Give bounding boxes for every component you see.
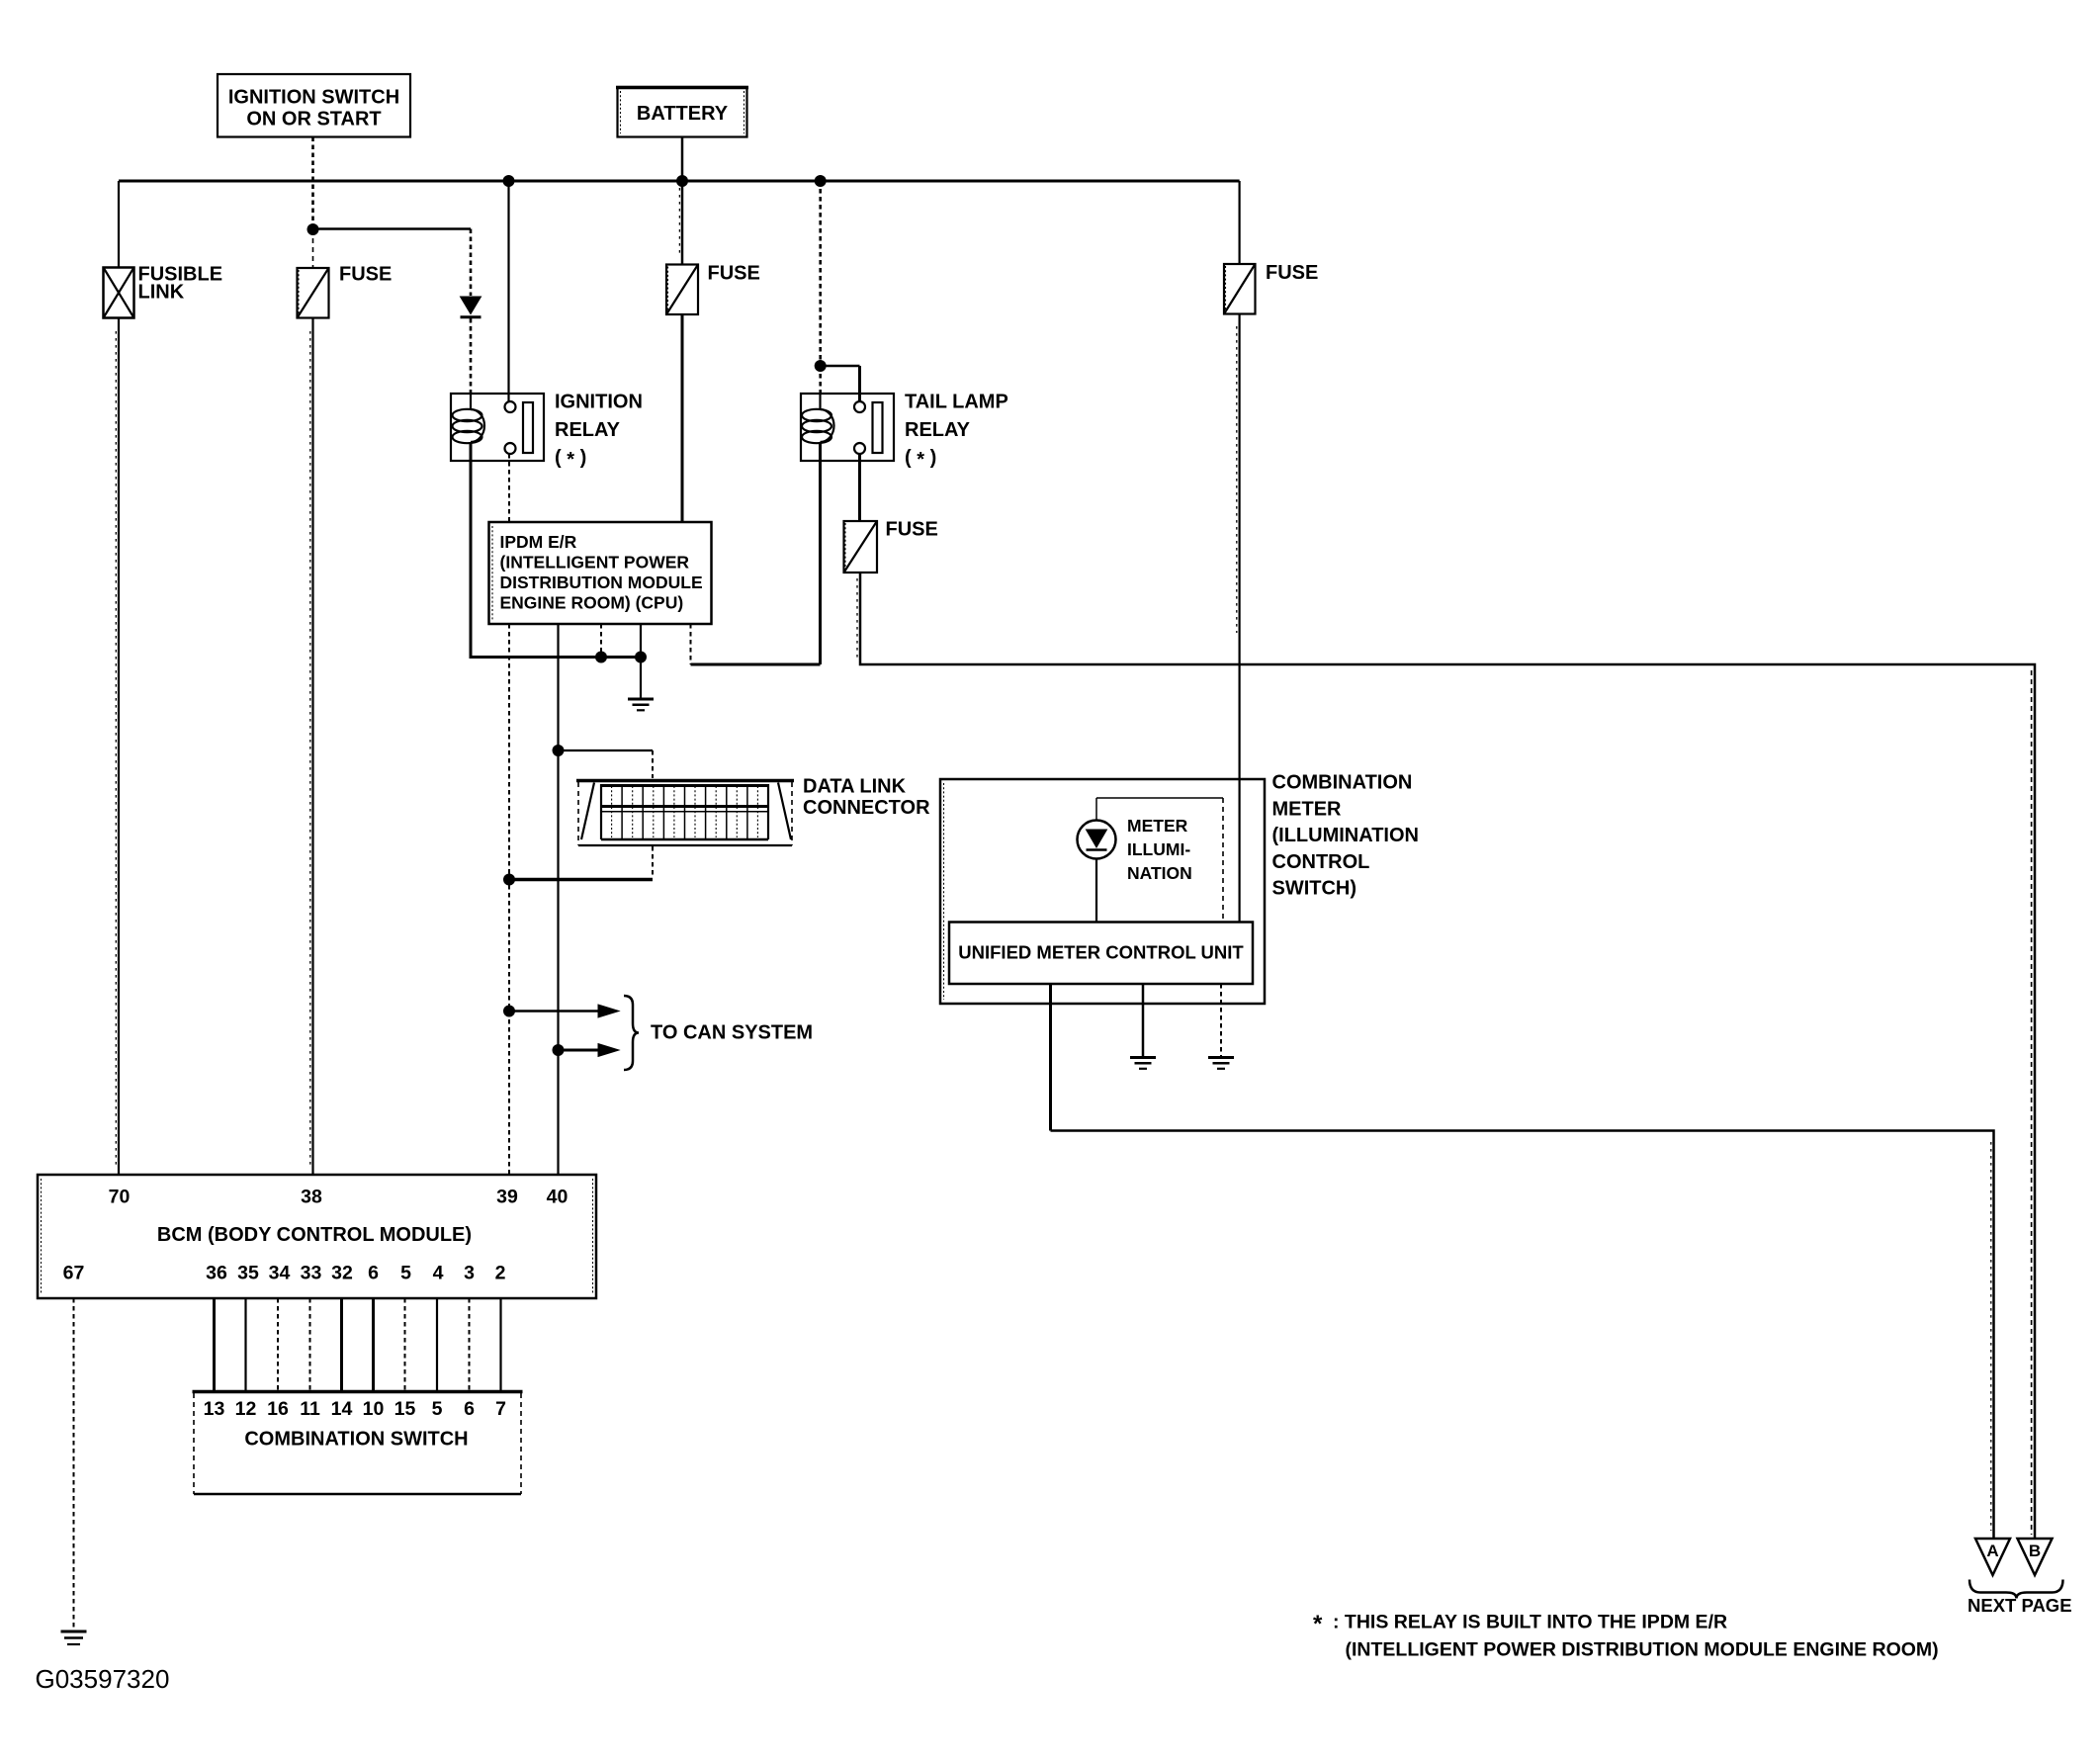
svg-text:B: B [2029, 1542, 2041, 1560]
svg-text:UNIFIED METER CONTROL UNIT: UNIFIED METER CONTROL UNIT [958, 942, 1244, 963]
ignition relay coil [470, 394, 472, 409]
wire: BCM pin3 to switch pin6 (dashed) [469, 1298, 471, 1390]
wire: tick marks beside tail fuse output [856, 578, 858, 658]
wire: BCM pin5 to switch pin15 (dashed) [404, 1298, 406, 1390]
svg-text:5: 5 [432, 1398, 443, 1420]
svg-text:(INTELLIGENT POWER DISTRIBUTIO: (INTELLIGENT POWER DISTRIBUTION MODULE E… [1346, 1639, 1939, 1661]
svg-text:DISTRIBUTION MODULE: DISTRIBUTION MODULE [500, 573, 703, 592]
fuse symbol inner dashed edges [299, 266, 1226, 571]
brace: next page group [1969, 1580, 2063, 1599]
wire: tick marks beside meter feed [1236, 326, 1238, 633]
wire: right fuse drop from bus [1238, 181, 1240, 264]
next page triangle B [2018, 1539, 2053, 1575]
relay: tail lamp relay (box) [801, 394, 894, 461]
wire: fusible link drop [118, 181, 120, 268]
svg-text:LINK: LINK [138, 282, 185, 304]
svg-text:12: 12 [235, 1398, 257, 1420]
LED: meter illumination lamp [1078, 821, 1116, 923]
battery box inner dashed edges [621, 91, 744, 133]
ground symbol (meter ground 2) [1208, 1058, 1234, 1069]
wire: UMCU output to next page A [1049, 984, 1052, 1131]
svg-text:CONNECTOR: CONNECTOR [803, 797, 930, 819]
junction dot on bus feeding ignition relay contact [503, 175, 515, 187]
svg-text:IGNITION: IGNITION [555, 392, 643, 413]
svg-text:14: 14 [331, 1398, 353, 1420]
svg-text:SWITCH): SWITCH) [1272, 878, 1357, 900]
svg-text:7: 7 [495, 1398, 506, 1420]
junction dot: data link connector branch [553, 745, 565, 756]
svg-text:TAIL LAMP: TAIL LAMP [905, 392, 1008, 413]
svg-text:( * ): ( * ) [905, 447, 936, 471]
fuse (illumination circuit) [1224, 262, 1318, 314]
svg-text:6: 6 [368, 1263, 379, 1284]
svg-text:METER: METER [1272, 799, 1343, 821]
svg-text:3: 3 [464, 1263, 475, 1284]
data link connector [576, 781, 794, 846]
svg-text:ENGINE ROOM) (CPU): ENGINE ROOM) (CPU) [500, 593, 684, 613]
svg-text:COMBINATION: COMBINATION [1272, 772, 1413, 794]
junction dot on bus at battery [676, 175, 688, 187]
svg-text:IPDM E/R: IPDM E/R [500, 532, 577, 552]
svg-text:(INTELLIGENT POWER: (INTELLIGENT POWER [500, 553, 690, 573]
svg-text:ON OR START: ON OR START [246, 109, 381, 131]
wire: IPDM output stub (dashed) to coil-return node [600, 624, 602, 658]
wire: tick marks beside ignition fuse run [309, 331, 311, 1167]
fuse (tail lamp circuit) [844, 519, 938, 573]
wire: parallel dashed marker along B wire [2031, 670, 2033, 1535]
svg-text:67: 67 [63, 1263, 85, 1284]
wire: battery drop to bus [681, 137, 684, 182]
svg-text:METER: METER [1127, 816, 1188, 836]
fusible link symbol [104, 264, 223, 318]
junction dot: ignition fuse branch to diode [307, 223, 319, 235]
wire: IPDM bottom-right stub (dashed) [690, 624, 692, 664]
junction dot: DLC return on pin39 line [503, 874, 515, 886]
svg-text:IGNITION SWITCH: IGNITION SWITCH [228, 87, 399, 109]
svg-text:FUSE: FUSE [708, 263, 760, 285]
combination switch box [193, 1392, 523, 1495]
junction dot: tail lamp relay branch [815, 360, 827, 372]
svg-text:FUSE: FUSE [339, 264, 392, 286]
svg-text:RELAY: RELAY [555, 419, 621, 441]
ignition relay contacts [505, 401, 516, 412]
svg-text:11: 11 [300, 1398, 320, 1420]
svg-text:COMBINATION SWITCH: COMBINATION SWITCH [244, 1429, 468, 1451]
svg-text:39: 39 [496, 1187, 518, 1208]
BCM box inner dashed edges [42, 1179, 593, 1294]
svg-text:NEXT PAGE: NEXT PAGE [1968, 1595, 2072, 1616]
wire: IPDM pin 39 line (dashed) to BCM [508, 624, 510, 1175]
wire: UMCU ground lead 1 [1142, 984, 1145, 1058]
fuse (ignition switch circuit) [298, 229, 393, 318]
svg-text:BATTERY: BATTERY [637, 103, 729, 125]
junction dot on bus feeding tail lamp relay [815, 175, 827, 187]
wire: branch to tail lamp relay contact [821, 365, 860, 368]
IPDM box inner dashed edge [491, 526, 493, 620]
node: meter illumination branch box (dashed) [1096, 798, 1223, 922]
svg-text:FUSE: FUSE [1266, 262, 1318, 284]
wire: tick marks beside fusible link run [115, 331, 117, 1167]
svg-text:A: A [1986, 1542, 1998, 1560]
relay: ignition relay (box) [451, 394, 544, 461]
svg-text:G03597320: G03597320 [36, 1664, 170, 1694]
wire+arrow: CAN line 1 [509, 1005, 619, 1017]
svg-text:35: 35 [237, 1263, 259, 1284]
svg-text:5: 5 [400, 1263, 411, 1284]
svg-text:2: 2 [495, 1263, 506, 1284]
wire: tail lamp fuse output to next page B [860, 573, 2035, 1539]
svg-text:TO CAN SYSTEM: TO CAN SYSTEM [651, 1022, 813, 1044]
wire: branch from ignition feed to diode column [313, 227, 472, 230]
svg-text:BCM (BODY CONTROL MODULE): BCM (BODY CONTROL MODULE) [157, 1224, 472, 1246]
svg-text:32: 32 [331, 1263, 353, 1284]
svg-text:15: 15 [394, 1398, 416, 1420]
svg-text:( * ): ( * ) [555, 447, 586, 471]
unified meter control unit box [949, 923, 1253, 985]
wire: IPDM to tail relay coil return node [691, 663, 821, 666]
wire: tail relay coil return down to node [819, 461, 822, 664]
wire: ignition switch feed (crosses bus, dashed) [311, 137, 314, 230]
node: main power bus wire [119, 180, 1240, 183]
wire: battery fuse to IPDM E/R [681, 314, 684, 523]
combination meter box inner dashed edge [943, 783, 945, 1000]
svg-text:ILLUMI-: ILLUMI- [1127, 839, 1190, 859]
diode (ignition relay coil feed) [461, 297, 481, 317]
svg-text:38: 38 [301, 1187, 322, 1208]
junction dot: CAN branch 1 [503, 1006, 515, 1017]
wire+arrow: CAN line 2 [559, 1044, 620, 1057]
svg-text:16: 16 [267, 1398, 289, 1420]
wire: ignition relay coil return (bold) [471, 461, 643, 658]
wire: branch to data link connector [559, 749, 654, 751]
wire: fusible link to BCM pin 70 [118, 318, 120, 1176]
wire: BCM pin2 to switch pin7 [499, 1298, 501, 1390]
junction dot on coil return node [595, 652, 607, 663]
svg-text:33: 33 [301, 1263, 322, 1284]
svg-text:13: 13 [204, 1398, 225, 1420]
svg-text:DATA LINK: DATA LINK [803, 776, 907, 798]
svg-text:: THIS RELAY IS BUILT INTO THE: : THIS RELAY IS BUILT INTO THE IPDM E/R [1333, 1612, 1727, 1633]
combination meter box [940, 779, 1265, 1004]
footnote: relay note line 1 [1313, 1611, 1727, 1637]
BCM (body control module) box [38, 1175, 596, 1298]
tail lamp relay coil [819, 394, 821, 409]
next page triangle A [1975, 1539, 2010, 1575]
svg-text:34: 34 [269, 1263, 291, 1284]
label: tail lamp relay [905, 392, 1008, 472]
wire: bus to battery fuse [681, 181, 684, 265]
wire: diode feed (dashed) [470, 229, 473, 297]
wire: ignition relay contact output to IPDM (dashed) [508, 454, 510, 523]
svg-text:70: 70 [109, 1187, 131, 1208]
wire: illumination fuse to combination meter [1238, 314, 1240, 923]
junction dot on coil return node at ground stub [635, 652, 647, 663]
svg-text:36: 36 [206, 1263, 227, 1284]
label: combination meter [1272, 772, 1420, 900]
wire: tail relay contact output to fuse [858, 454, 861, 521]
wire: BCM pin6 to switch pin10 [372, 1298, 375, 1390]
wire: tail lamp relay feed (dashed) [819, 181, 822, 365]
fuse (battery circuit to IPDM) [666, 263, 760, 315]
label: meter illumination [1127, 816, 1192, 883]
svg-text:40: 40 [547, 1187, 569, 1208]
wire: BCM pin32 to switch pin14 [340, 1298, 343, 1390]
ignition switch power source box [218, 74, 410, 137]
junction dot: CAN branch 2 [553, 1044, 565, 1056]
ground symbol (meter ground 1) [1130, 1058, 1156, 1069]
wire: BCM pin 67 ground lead (dashed) [73, 1298, 75, 1630]
label: ignition relay [555, 392, 643, 472]
wire: BCM pin33 to switch pin11 (dashed) [309, 1298, 311, 1390]
wire: BCM pin35 to switch pin12 [244, 1298, 246, 1390]
wire: IPDM pin 40 line to BCM [557, 624, 559, 1175]
label: data link connector [803, 776, 930, 820]
svg-text:10: 10 [363, 1398, 385, 1420]
wire: bus to ignition relay contact [507, 181, 509, 401]
svg-text:NATION: NATION [1127, 863, 1192, 883]
svg-text:CONTROL: CONTROL [1272, 851, 1370, 873]
wire: branch to tail lamp relay coil (dashed) [819, 366, 822, 396]
wire: tick marks beside battery drop [678, 188, 680, 257]
svg-text:RELAY: RELAY [905, 419, 971, 441]
svg-text:4: 4 [433, 1263, 444, 1284]
wire: BCM pin36 to switch pin13 [213, 1298, 216, 1390]
tail lamp relay contacts [854, 401, 865, 412]
wire: UMCU ground lead 2 (dashed) [1220, 984, 1222, 1058]
brace: CAN system group [624, 996, 639, 1070]
wire: data link connector return (bold) [509, 878, 653, 882]
wire: BCM pin34 to switch pin16 (dashed) [277, 1298, 279, 1390]
wire: BCM pin4 to switch pin5 [436, 1298, 438, 1390]
svg-text:(ILLUMINATION: (ILLUMINATION [1272, 825, 1420, 846]
svg-text:*: * [1313, 1611, 1323, 1637]
battery power source box [616, 87, 748, 137]
svg-text:6: 6 [464, 1398, 475, 1420]
wire: IPDM ground stub [640, 624, 642, 699]
svg-text:FUSE: FUSE [886, 519, 938, 541]
wire: tick marks beside next-page A line [1990, 1142, 1992, 1531]
IPDM E/R control module box [489, 522, 712, 624]
ground symbol (BCM ground) [61, 1631, 87, 1644]
wire: fuse to BCM pin 38 [311, 318, 313, 1176]
wire: diode cathode to ignition relay coil (dashed) [470, 318, 473, 394]
ground symbol under IPDM [628, 699, 654, 710]
